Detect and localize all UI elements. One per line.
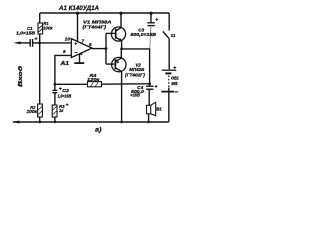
resistor R1: [38, 13, 53, 42]
svg-text:9: 9: [63, 49, 66, 54]
wire to V1 base: [106, 32, 115, 34]
switch S1: [163, 13, 176, 70]
wire to V2 base: [106, 63, 115, 65]
svg-text:7: 7: [82, 38, 85, 43]
resistor R3: [52, 103, 68, 123]
svg-text:500,0×15В: 500,0×15В: [131, 32, 157, 37]
svg-text:×15В: ×15В: [130, 93, 140, 98]
svg-text:а): а): [95, 126, 101, 133]
svg-text:100к: 100к: [43, 25, 53, 31]
transistor V1: [111, 12, 125, 49]
svg-text:1,0×15В: 1,0×15В: [16, 31, 36, 37]
node input terminal arrow: [19, 42, 30, 44]
transistor V2: [112, 49, 126, 123]
ground: [74, 62, 84, 64]
wire op-amp pin 4 down: [79, 54, 81, 62]
svg-text:1,0×15В: 1,0×15В: [58, 94, 72, 99]
wire bases vertical: [105, 33, 107, 64]
svg-text:(ГТ404Г): (ГТ404Г): [83, 24, 107, 30]
svg-text:10: 10: [65, 36, 71, 41]
capacitor C4: [130, 85, 157, 105]
wire input to op-amp pin 10: [33, 42, 72, 44]
capacitor C1: [16, 26, 37, 47]
svg-text:А1 К140УД1А: А1 К140УД1А: [58, 5, 99, 12]
svg-text:9В: 9В: [171, 81, 178, 86]
node bottom-left terminal arrow: [12, 121, 20, 124]
svg-text:Вход: Вход: [18, 66, 24, 87]
svg-text:S1: S1: [171, 33, 176, 38]
svg-text:100к: 100к: [27, 109, 38, 114]
wire op-amp output pin 5: [92, 48, 106, 50]
resistor R4 feedback: [54, 73, 152, 87]
wire op-amp pin 7 to rail: [77, 13, 79, 41]
wire op-amp pin 9: [55, 55, 71, 90]
resistor R2: [27, 43, 43, 123]
node junction C1/R1/R2: [38, 42, 41, 45]
wire emitters output node: [122, 49, 150, 86]
svg-text:120к: 120к: [87, 77, 100, 82]
svg-text:5: 5: [89, 42, 92, 47]
wire top +9V rail: [40, 12, 169, 14]
svg-text:(ГТ402Г): (ГТ402Г): [125, 73, 145, 78]
wire bottom common rail: [13, 121, 169, 123]
capacitor C2: [52, 87, 71, 105]
svg-text:А1: А1: [59, 61, 69, 67]
svg-text:В1: В1: [156, 107, 162, 112]
capacitor C3: [131, 12, 159, 49]
svg-text:МП42Б: МП42Б: [129, 67, 145, 72]
svg-text:1к: 1к: [59, 108, 64, 113]
svg-text:С2: С2: [62, 88, 69, 93]
speaker B1: [147, 102, 163, 123]
op-amp A1: [59, 39, 92, 68]
battery GB1: [161, 66, 179, 122]
svg-text:4: 4: [79, 52, 82, 56]
